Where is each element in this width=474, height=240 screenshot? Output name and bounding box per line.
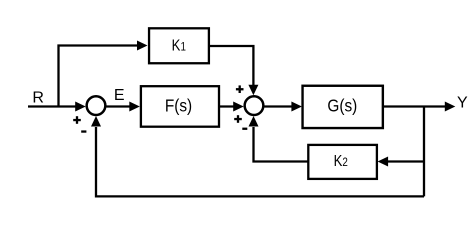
svg-text:R: R [32,90,44,107]
wire G(s) output to Y [383,105,446,107]
arrowhead into F(s) [129,102,140,112]
block G(s) [303,86,383,128]
arrowhead into S1 [75,102,86,112]
wire branch up from R line to K1 [59,46,140,108]
sign + (R into S1) [73,116,81,124]
wire R input to summing junction S1 [28,105,77,107]
arrowhead up into S1 bottom [91,116,101,127]
svg-text:K1: K1 [172,37,186,54]
block K2 [308,145,377,179]
svg-text:G(s): G(s) [327,97,357,116]
sign - (feedback into S1) [81,130,86,132]
wire branch into K2 [387,160,424,162]
svg-text:F(s): F(s) [165,97,192,116]
arrowhead to Y [445,102,456,112]
wire S2 to G(s) [264,105,293,107]
summing junction S1 [87,96,106,115]
arrowhead into K2 right side [378,157,389,167]
svg-text:K2: K2 [334,153,348,170]
arrowhead down into S2 top [248,85,258,96]
arrowhead up into S2 bottom [249,116,259,127]
arrowhead into S2 left [233,102,244,112]
wire S1 to F(s) [107,105,132,107]
summing junction S2 [245,96,264,115]
arrowhead into G(s) [291,102,302,112]
wire outer feedback bottom to S1 [96,127,424,196]
block F(s) [141,86,219,127]
arrowhead into K1 [137,41,148,51]
wire K1 output down to summing junction S2 [210,46,254,86]
sign + (F path into S2) [234,115,242,123]
wire branch down from output [423,107,425,197]
sign + (K1 path into S2) [236,85,244,93]
wire F(s) to summing junction S2 [219,105,235,107]
svg-text:Y: Y [457,95,468,112]
svg-text:E: E [114,87,125,104]
wire K2 output up into S2 bottom [254,127,309,162]
sign - (K2 feedback into S2) [242,128,247,130]
block K1 [149,28,209,63]
